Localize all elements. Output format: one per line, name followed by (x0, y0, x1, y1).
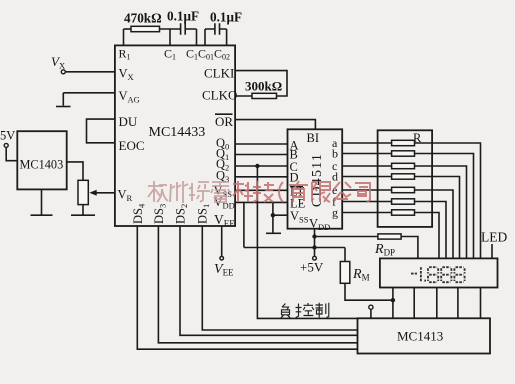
svg-text:CLKI: CLKI (204, 66, 234, 81)
wire segment a from CD4511 (342, 142, 391, 144)
potentiometer RP (78, 180, 88, 204)
wire segment a to display (415, 143, 481, 258)
resistor network box R (378, 130, 433, 227)
svg-text:LED: LED (481, 230, 507, 245)
LED display box (380, 258, 498, 287)
resistor Rc (392, 163, 415, 168)
wire RDP line (315, 236, 378, 238)
ground LE/VSS (266, 232, 281, 234)
杭 (148, 181, 168, 202)
wire Q0 to A (235, 143, 287, 145)
wire C1 cap to pin (185, 29, 196, 45)
wire RDP to display (401, 237, 418, 259)
node junction 5V (312, 245, 316, 249)
node junction RM display (391, 298, 395, 302)
svg-text:DU: DU (119, 114, 138, 129)
wire segment g to display (415, 213, 440, 259)
wire segment d to display (415, 177, 460, 259)
wire CLKI loop (235, 71, 287, 96)
node junction VSS 4511 (271, 213, 275, 217)
svg-text:470kΩ: 470kΩ (124, 11, 162, 26)
公 (334, 182, 351, 201)
wire segment f to display (415, 202, 447, 259)
wire C0 cap to C02 pin (220, 29, 227, 45)
svg-text:g: g (332, 206, 338, 220)
node VEE terminal (220, 256, 224, 260)
将 (189, 182, 210, 202)
node junction RDP (312, 234, 316, 238)
watermark (red Chinese text) (148, 181, 370, 203)
seven segment display -1.888 (411, 267, 465, 282)
svg-text:MC1403: MC1403 (20, 157, 64, 171)
wire DS3 to MC1413 (158, 226, 357, 343)
capacitor C0 0.1uF (215, 23, 220, 35)
wire segment b to display (415, 154, 474, 259)
wire VSS 4511 (273, 214, 288, 216)
ground MC1403 (31, 214, 53, 216)
capacitor C1 0.1uF (181, 23, 186, 35)
wire R1 to C1 (160, 28, 181, 30)
node negative control terminal (370, 309, 372, 318)
wire display pin 4 to MC1413 (457, 288, 459, 319)
wire display pin 1 to MC1413 (392, 288, 394, 319)
wire VSS to LT (235, 189, 287, 191)
wire C01 pin stub (205, 29, 215, 45)
ground pot (71, 214, 95, 216)
wire VX (65, 71, 115, 73)
wire segment e from CD4511 (342, 189, 391, 191)
svg-text:0.1μF: 0.1μF (167, 9, 199, 24)
wire C1 pin stub (169, 29, 171, 45)
wire VDD to LE (235, 201, 287, 203)
label negative control (Chinese) (281, 303, 329, 318)
wire MC1403 to ground (41, 189, 43, 214)
wire DS4 to MC1413 (137, 226, 357, 349)
svg-text:CLKO: CLKO (202, 88, 237, 103)
IC U4 MC1413 body (358, 318, 491, 353)
wire Q2 to C (235, 165, 287, 167)
wire LE ground branch (272, 202, 274, 233)
wire LED to display (491, 244, 493, 258)
wire segment e to display (415, 190, 454, 258)
睿 (211, 182, 230, 202)
科 (233, 181, 253, 202)
wire 5V terminal stub (314, 248, 316, 257)
wire RM top (344, 248, 346, 262)
resistor 300k (252, 93, 277, 98)
wire segment d from CD4511 (342, 176, 391, 178)
node VX input terminal (61, 70, 65, 74)
resistor Ra (392, 140, 415, 145)
svg-text:EOC: EOC (119, 138, 145, 153)
wire segment c from CD4511 (342, 165, 391, 167)
wire segment b from CD4511 (342, 153, 391, 155)
node +5V terminal (313, 256, 317, 260)
ground VAG (56, 106, 71, 108)
wire display pin 3 to MC1413 (436, 288, 438, 319)
wire VEE stub (221, 226, 223, 256)
svg-text:0.1μF: 0.1μF (210, 10, 242, 25)
wire VDD 4511 down (314, 229, 316, 248)
wire pot to ground (82, 205, 84, 215)
wire DS1 to MC1413 (202, 226, 357, 330)
wire 5V rail (244, 247, 345, 249)
IC U2 MC1403 body (17, 131, 66, 189)
wire R1 pin stub (123, 29, 125, 45)
wire OR to BI (235, 120, 315, 130)
svg-text:d: d (332, 170, 338, 184)
svg-text:+5V: +5V (300, 260, 324, 275)
wire VR with arrow to pot (94, 192, 115, 194)
svg-text:MC1413: MC1413 (397, 329, 443, 344)
wire segment c to display (415, 166, 467, 258)
wire R1 top left (124, 28, 132, 30)
wire Q3 to D (235, 176, 287, 178)
wire CLKO to resistor (235, 95, 252, 97)
resistor Rg (392, 210, 415, 215)
wire VDD branch down (243, 202, 245, 247)
wire segment f from CD4511 (342, 201, 391, 203)
svg-text:MC14433: MC14433 (149, 125, 206, 140)
司 (355, 183, 370, 202)
resistor RM (340, 262, 350, 284)
resistor Rf (392, 199, 415, 204)
svg-text:300kΩ: 300kΩ (245, 79, 282, 94)
svg-text:5V: 5V (0, 129, 15, 143)
resistor R1 470k (131, 26, 160, 31)
resistor RDP (378, 234, 401, 239)
resistor Rb (392, 151, 415, 156)
wire DU-EOC loop (87, 119, 115, 143)
svg-text:OR: OR (215, 114, 233, 129)
IC U1 MC14433 body (115, 45, 235, 226)
wire display pin 2 to MC1413 (413, 288, 415, 319)
限 (312, 182, 330, 202)
州 (170, 181, 188, 203)
wire display pin 5 to MC1413 (480, 288, 482, 319)
wire VAG to ground (63, 93, 115, 106)
wire segment g from CD4511 (342, 212, 391, 214)
IC U3 CD4511 body (288, 129, 343, 228)
wire MC1403 output to pot (67, 162, 83, 180)
wire Q1 to B (235, 154, 287, 156)
wire 5V to MC1403 (6, 147, 17, 160)
svg-text:BI: BI (307, 131, 320, 145)
wire DS2 to MC1413 (180, 226, 357, 335)
技 (253, 181, 274, 202)
有 (289, 181, 308, 202)
wire RM bottom (345, 283, 393, 300)
resistor Rd (392, 174, 415, 179)
resistor Re (392, 187, 415, 192)
wire Q2 to MC1413 negative control (257, 166, 357, 318)
node junction Q2 (255, 164, 259, 168)
( (279, 182, 283, 202)
